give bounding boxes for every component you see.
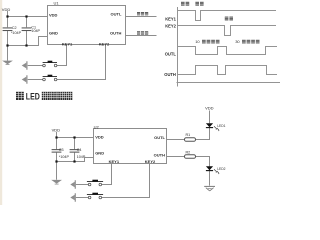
svg-text:OUTL: OUTL xyxy=(111,11,122,16)
svg-text:OUTL: OUTL xyxy=(154,135,165,140)
svg-text:104P: 104P xyxy=(77,155,86,159)
svg-text:C4: C4 xyxy=(77,148,82,152)
svg-text:VDD: VDD xyxy=(52,127,61,132)
svg-text:30: 30 xyxy=(235,39,240,44)
svg-text:R1: R1 xyxy=(186,133,191,137)
svg-text:U1: U1 xyxy=(54,0,60,5)
svg-text:OUTL: OUTL xyxy=(165,51,177,56)
svg-text:LED1: LED1 xyxy=(217,124,225,128)
svg-text:KEY2: KEY2 xyxy=(145,159,156,164)
svg-text:KEY1: KEY1 xyxy=(62,41,73,46)
svg-text:GND: GND xyxy=(49,30,58,35)
svg-text:LED: LED xyxy=(26,92,40,102)
svg-text:R2: R2 xyxy=(186,150,191,154)
svg-text:C3: C3 xyxy=(59,148,64,152)
svg-text:*104P: *104P xyxy=(11,31,22,35)
svg-text:KEY1: KEY1 xyxy=(165,16,176,21)
svg-text:*104P: *104P xyxy=(59,155,70,159)
svg-text:KEY1: KEY1 xyxy=(109,159,120,164)
svg-text:VDD: VDD xyxy=(2,7,11,12)
svg-text:VDD: VDD xyxy=(95,134,104,139)
svg-text:OUTH: OUTH xyxy=(164,72,176,77)
svg-text:C2: C2 xyxy=(12,26,17,30)
svg-text:KEY2: KEY2 xyxy=(165,24,176,29)
svg-text:VDD: VDD xyxy=(205,105,214,110)
svg-text:KEY2: KEY2 xyxy=(99,41,110,46)
svg-text:10: 10 xyxy=(195,39,200,44)
svg-text:VDD: VDD xyxy=(49,12,58,17)
svg-text:GND: GND xyxy=(95,151,104,156)
svg-text:LED2: LED2 xyxy=(217,167,225,171)
svg-text:OUTH: OUTH xyxy=(154,153,165,158)
svg-text:104P: 104P xyxy=(31,29,40,33)
svg-text:OUTH: OUTH xyxy=(110,31,121,36)
svg-text:U2: U2 xyxy=(94,125,100,130)
